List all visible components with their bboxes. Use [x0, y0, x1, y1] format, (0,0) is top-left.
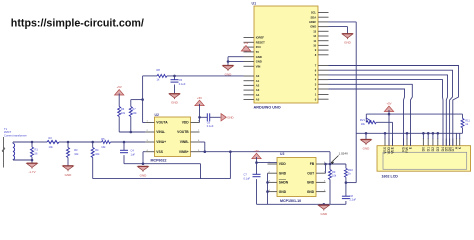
- svg-text:0.1uF: 0.1uF: [244, 176, 251, 180]
- wire pot wiper to VEE: [376, 122, 392, 145]
- svg-text:IOREF: IOREF: [256, 36, 265, 40]
- svg-text:R3: R3: [74, 148, 78, 152]
- resistor R7 feedback: [129, 100, 137, 132]
- svg-text:R6: R6: [121, 107, 125, 111]
- ground at U1 right GND pin: [342, 34, 353, 45]
- power flag +5V at U3 VDD: [252, 149, 277, 164]
- svg-text:SCL: SCL: [311, 11, 317, 15]
- svg-text:A5: A5: [256, 98, 260, 102]
- svg-text:A4: A4: [256, 93, 260, 97]
- svg-text:1602 LCD: 1602 LCD: [382, 174, 399, 178]
- wire U2 VDD riser: [199, 117, 201, 122]
- capacitor C4: [120, 142, 135, 164]
- svg-text:VIN: VIN: [256, 64, 261, 68]
- U2 pins: [145, 121, 200, 154]
- potentiometer RV1 contrast: [360, 114, 376, 126]
- svg-text:GND: GND: [279, 171, 287, 175]
- svg-text:R10: R10: [348, 168, 353, 172]
- resistor R9 FB load: [329, 164, 337, 204]
- resistor R8 output: [157, 68, 244, 81]
- svg-text:+5V: +5V: [117, 85, 122, 89]
- wire D2 to LCD RS: [329, 89, 405, 146]
- mcu U1 ARDUINO UNO body: [252, 2, 319, 110]
- wire U1 right GND pin: [329, 27, 348, 34]
- svg-text:R7: R7: [132, 107, 136, 111]
- svg-text:10k: 10k: [95, 152, 100, 156]
- resistor R1 burden: [31, 142, 39, 160]
- wire divider to R4: [68, 141, 93, 143]
- svg-text:VINA+: VINA+: [156, 140, 166, 144]
- wire inverting input: [119, 131, 145, 134]
- svg-text:1uF: 1uF: [131, 152, 136, 156]
- node T1 bottom: [31, 159, 34, 162]
- svg-text:10k: 10k: [361, 122, 366, 126]
- resistor R3 to ground: [67, 142, 80, 166]
- svg-text:MCP1501-10: MCP1501-10: [280, 199, 301, 203]
- svg-text:D1: D1: [426, 147, 430, 152]
- svg-text:12: 12: [313, 34, 316, 38]
- wire +5V rail LCD: [366, 113, 462, 115]
- svg-text:D0: D0: [422, 147, 426, 152]
- svg-text:VDD: VDD: [279, 162, 287, 166]
- node T1 top: [31, 141, 34, 144]
- wire VINB- feedback: [200, 142, 207, 153]
- svg-text:5V: 5V: [256, 50, 259, 54]
- svg-text:GND: GND: [307, 190, 315, 194]
- svg-text:+5V: +5V: [254, 149, 259, 153]
- svg-text:VDD: VDD: [182, 121, 190, 125]
- wire 1.024V return to U3 FB: [93, 152, 231, 179]
- svg-text:FB: FB: [310, 162, 315, 166]
- svg-text:VOUTB: VOUTB: [177, 130, 189, 134]
- node C5: [173, 75, 176, 78]
- svg-text:SDA: SDA: [311, 15, 317, 19]
- svg-text:10: 10: [313, 44, 316, 48]
- power flag +5V at U1 5V pin: [241, 41, 250, 52]
- svg-text:GND: GND: [279, 190, 287, 194]
- svg-text:GND: GND: [140, 173, 148, 177]
- reference U3 MCP1501-10 body: [277, 152, 316, 203]
- svg-text:VINB+: VINB+: [179, 150, 189, 154]
- svg-text:1.024V: 1.024V: [339, 152, 349, 156]
- svg-text:A2: A2: [256, 84, 260, 88]
- svg-text:R8: R8: [157, 68, 161, 72]
- node divider A: [67, 141, 70, 144]
- wire T1 secondary bottom: [12, 159, 14, 162]
- svg-text:10k: 10k: [74, 152, 79, 156]
- svg-text:10k: 10k: [121, 111, 126, 115]
- svg-text:GND: GND: [227, 116, 233, 120]
- ground at U2 VSS: [138, 166, 149, 177]
- svg-text:U1: U1: [252, 2, 257, 6]
- svg-text:GND: GND: [344, 41, 352, 45]
- svg-text:Current transformer: Current transformer: [4, 133, 27, 137]
- wire D4 to LCD D4: [329, 80, 444, 146]
- svg-text:11: 11: [313, 39, 316, 43]
- resistor R6 gain: [118, 107, 126, 133]
- wire VINB+ to 1.024V: [200, 150, 331, 164]
- resistor R5 series input 2: [93, 137, 146, 149]
- svg-text:VSS: VSS: [156, 150, 163, 154]
- svg-text:C8: C8: [350, 194, 354, 198]
- capacitor C6 decoupling: [200, 113, 221, 128]
- wire T1 secondary top: [12, 142, 14, 144]
- U1 right pins: [309, 11, 329, 102]
- wire U3 ground bus: [257, 203, 346, 206]
- ground flag right at C6: [221, 114, 234, 121]
- node C4: [123, 141, 126, 144]
- svg-text:https://simple-circuit.com/: https://simple-circuit.com/: [11, 18, 144, 30]
- callout 1.024V: [331, 152, 348, 165]
- svg-text:VOUTA: VOUTA: [156, 121, 168, 125]
- svg-text:GND: GND: [320, 212, 328, 216]
- svg-text:+5V: +5V: [243, 41, 248, 45]
- wire VOUTA to A0: [143, 75, 157, 77]
- svg-text:C4: C4: [131, 149, 135, 153]
- power flag +5V at U2 VDD: [195, 96, 204, 119]
- svg-text:SHDN: SHDN: [279, 181, 289, 185]
- resistor R4 to 1.024V net: [91, 142, 100, 179]
- svg-text:GND: GND: [307, 181, 315, 185]
- node FB 1.024V: [326, 163, 346, 166]
- svg-text:R2: R2: [49, 136, 53, 140]
- U1 left pins: [244, 36, 266, 102]
- resistor R11 backlight: [461, 114, 470, 133]
- svg-text:C7: C7: [244, 173, 248, 177]
- svg-text:D3: D3: [436, 147, 440, 152]
- svg-text:D2: D2: [431, 147, 435, 152]
- capacitor C8 AREF filter: [342, 194, 357, 205]
- transformer T1 current transformer: [2, 127, 27, 168]
- svg-text:VEE: VEE: [391, 146, 395, 154]
- wire R7 to VOUTA: [131, 98, 144, 101]
- svg-text:R9: R9: [332, 170, 336, 174]
- LCD1 pins: [383, 139, 462, 155]
- svg-text:A3: A3: [256, 88, 260, 92]
- svg-text:C5: C5: [179, 78, 183, 82]
- wire AREF to RC filter: [329, 22, 357, 183]
- ground at C5: [169, 94, 180, 105]
- svg-text:MCP6022: MCP6022: [151, 158, 167, 162]
- svg-text:+5V: +5V: [386, 102, 391, 106]
- svg-text:U2: U2: [155, 113, 159, 117]
- capacitor C5: [171, 76, 186, 94]
- svg-text:GND: GND: [363, 147, 371, 151]
- svg-text:U3: U3: [280, 152, 284, 156]
- display LCD1 1602 body: [377, 146, 471, 179]
- svg-text:RESET: RESET: [256, 40, 265, 44]
- ground at R3: [63, 166, 74, 177]
- wire VOUTA riser: [143, 76, 146, 123]
- wire U2 VSS to ground: [143, 152, 145, 164]
- capacitor C7 at U3 VDD: [244, 163, 261, 205]
- power flag +5V at LCD: [384, 102, 393, 116]
- svg-text:R11: R11: [465, 118, 470, 122]
- wire U1 GND pins: [227, 57, 244, 66]
- svg-text:VINA-: VINA-: [156, 130, 165, 134]
- wire D6 to LCD D6: [329, 70, 453, 146]
- svg-text:10k: 10k: [49, 145, 54, 149]
- svg-text:VINB-: VINB-: [180, 140, 189, 144]
- svg-text:0.1uF: 0.1uF: [207, 124, 214, 128]
- svg-text:AREF: AREF: [309, 20, 317, 24]
- svg-text:OUT: OUT: [307, 171, 314, 175]
- svg-text:R1: R1: [35, 148, 39, 152]
- wire U2 ground bus: [124, 162, 201, 178]
- svg-text:-1.7V: -1.7V: [28, 170, 35, 174]
- wire LCD ground bus: [357, 132, 463, 135]
- resistor R2 series input: [32, 136, 68, 149]
- power flag +5V at R6: [115, 85, 124, 106]
- wire D7 to LCD D7: [329, 66, 459, 146]
- svg-text:R4: R4: [95, 148, 99, 152]
- svg-text:GND: GND: [310, 25, 316, 29]
- wire D5 to LCD D5: [329, 75, 448, 146]
- wire LCD VDD riser: [388, 114, 390, 146]
- wire LCD pin risers from bus: [385, 133, 460, 139]
- wire U3 OUT to FB: [324, 163, 327, 174]
- svg-text:A0: A0: [256, 74, 260, 78]
- svg-text:GND: GND: [171, 101, 179, 105]
- resistor R10 AREF filter: [344, 164, 353, 196]
- ground at U3 bus: [318, 205, 329, 216]
- svg-text:R5: R5: [101, 137, 105, 141]
- svg-text:3V3: 3V3: [256, 45, 261, 49]
- svg-text:GND: GND: [256, 60, 262, 64]
- svg-text:ARDUINO UNO: ARDUINO UNO: [254, 106, 281, 110]
- svg-text:C6: C6: [207, 120, 211, 124]
- svg-text:+5V: +5V: [197, 96, 202, 100]
- svg-text:GND: GND: [65, 173, 73, 177]
- U3 pins: [268, 162, 327, 194]
- svg-text:RV1: RV1: [360, 118, 366, 122]
- svg-text:GND: GND: [256, 55, 262, 59]
- wire U3 left GND pins: [266, 173, 269, 204]
- ground at LCD bus: [361, 133, 372, 150]
- svg-text:10k: 10k: [332, 174, 337, 178]
- op-amp U2 MCP6022 body: [151, 113, 191, 163]
- ground at U1 left GND pins: [223, 65, 234, 76]
- svg-text:10k: 10k: [132, 111, 137, 115]
- svg-text:0.1uF: 0.1uF: [179, 82, 186, 86]
- svg-text:2.2uF: 2.2uF: [350, 198, 357, 202]
- svg-text:13: 13: [313, 29, 316, 33]
- power flag 1.7V at burden bottom: [27, 160, 38, 174]
- wire D3 to LCD E: [329, 84, 413, 145]
- node divider B: [91, 141, 94, 144]
- svg-text:10k: 10k: [101, 145, 106, 149]
- svg-text:A1: A1: [256, 79, 260, 83]
